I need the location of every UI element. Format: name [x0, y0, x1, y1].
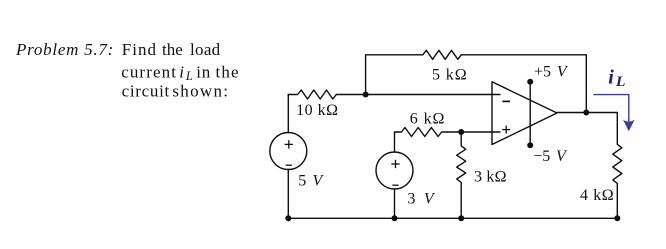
- svg-text:−5 V: −5 V: [533, 148, 568, 165]
- svg-text:5 kΩ: 5 kΩ: [432, 67, 468, 84]
- svg-text:4 kΩ: 4 kΩ: [580, 187, 614, 204]
- svg-text:L: L: [615, 74, 626, 90]
- svg-text:the: the: [162, 40, 183, 59]
- svg-text:6 kΩ: 6 kΩ: [410, 111, 446, 128]
- svg-text:Find: Find: [122, 40, 157, 59]
- svg-text:load: load: [190, 40, 221, 59]
- svg-text:i: i: [608, 67, 614, 89]
- svg-text:i: i: [179, 62, 184, 81]
- svg-text:3 kΩ: 3 kΩ: [474, 169, 507, 186]
- svg-text:3 V: 3 V: [407, 191, 436, 208]
- svg-text:the: the: [216, 62, 240, 81]
- svg-text:Problem 5.7:: Problem 5.7:: [15, 40, 114, 59]
- svg-text:circuit: circuit: [122, 82, 170, 101]
- svg-text:current: current: [121, 62, 177, 81]
- svg-text:10 kΩ: 10 kΩ: [296, 102, 338, 119]
- svg-text:5 V: 5 V: [298, 172, 324, 189]
- svg-text:+5 V: +5 V: [534, 64, 569, 81]
- svg-text:shown:: shown:: [172, 82, 229, 101]
- svg-text:in: in: [196, 62, 211, 81]
